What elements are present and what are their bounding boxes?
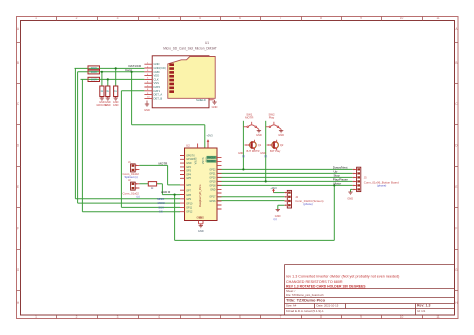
svg-text:AUD R: AUD R — [161, 190, 171, 194]
pushbutton SW1 MOTR — [244, 112, 259, 129]
svg-text:B: B — [17, 61, 19, 65]
connector J5 button board — [353, 167, 399, 191]
svg-text:Spkrout (x): Spkrout (x) — [125, 175, 138, 179]
svg-text:4: 4 — [158, 16, 160, 20]
svg-text:3: 3 — [117, 315, 119, 319]
svg-text:GND: GND — [186, 162, 192, 165]
svg-text:5: 5 — [199, 315, 201, 319]
svg-text:GP12: GP12 — [186, 211, 193, 214]
svg-text:1: 1 — [35, 16, 37, 20]
svg-text:GP19: GP19 — [209, 180, 216, 183]
svg-text:6: 6 — [239, 315, 241, 319]
resistor R6 vertical pulldown 3 — [114, 86, 118, 97]
svg-text:10: 10 — [400, 16, 404, 20]
wire net DAT1/CD horizontal — [75, 67, 145, 69]
connector J1 speaker — [123, 160, 140, 179]
svg-text:CHANGED RESISTORS TO 680R: CHANGED RESISTORS TO 680R — [286, 280, 343, 284]
svg-text:(phone): (phone) — [303, 202, 312, 206]
svg-text:BJT Play: BJT Play — [270, 149, 281, 153]
svg-text:(phone): (phone) — [377, 184, 386, 188]
svg-text:SWDIO: SWDIO — [207, 161, 215, 163]
wire R3 pullup top — [107, 79, 109, 86]
ground below pico — [198, 226, 204, 233]
svg-text:Q1: Q1 — [258, 143, 262, 147]
wire screen gnd — [278, 205, 285, 209]
svg-text:GP18: GP18 — [209, 184, 216, 187]
wire button Stop — [217, 176, 352, 178]
svg-text:GP2: GP2 — [186, 166, 191, 169]
svg-text:GND: GND — [198, 229, 204, 233]
svg-text:GND(/CD): GND(/CD) — [154, 66, 166, 70]
svg-text:9: 9 — [360, 315, 362, 319]
wire button Up — [217, 172, 352, 174]
svg-text:GP21: GP21 — [209, 172, 216, 175]
svg-text:Size: A4: Size: A4 — [286, 304, 297, 308]
svg-text:CS: CS — [159, 210, 163, 214]
svg-text:DET_B: DET_B — [154, 96, 163, 100]
svg-text:CMD: CMD — [154, 70, 160, 74]
svg-text:Sheet: /: Sheet: / — [286, 289, 296, 293]
svg-text:GP16: GP16 — [209, 200, 216, 203]
ground below resistor R6 — [113, 97, 119, 107]
wire vertical V2 to bus — [78, 72, 180, 203]
svg-text:3: 3 — [117, 16, 119, 20]
svg-text:6: 6 — [239, 16, 241, 20]
ground below SD left — [144, 101, 150, 112]
svg-text:+3V3: +3V3 — [270, 186, 277, 190]
svg-text:GND: GND — [210, 188, 216, 191]
transistor Q2 — [260, 140, 284, 158]
svg-text:E: E — [17, 185, 19, 189]
svg-text:DET_A: DET_A — [154, 93, 163, 97]
svg-text:Date: 2021-10-15: Date: 2021-10-15 — [317, 304, 339, 308]
svg-text:680R: 680R — [91, 77, 97, 81]
svg-text:GND: GND — [256, 133, 262, 137]
svg-text:Title: TZXDuino Pico: Title: TZXDuino Pico — [286, 297, 326, 302]
svg-text:4: 4 — [158, 315, 160, 319]
resistor R1 horizontal (DAT1/CD) — [88, 66, 100, 70]
wire buttonconn gnd — [351, 189, 353, 192]
svg-text:10: 10 — [400, 315, 404, 319]
svg-text:SWCLK: SWCLK — [207, 157, 216, 159]
svg-text:680R: 680R — [91, 70, 97, 74]
svg-text:VDD: VDD — [154, 74, 160, 78]
svg-text:GP4: GP4 — [186, 173, 191, 176]
resistor R7 earphone series — [148, 182, 156, 190]
wire screen vcc — [274, 192, 285, 194]
svg-text:VSYS: VSYS — [202, 157, 205, 164]
wire Q2 collector drop — [265, 121, 267, 182]
svg-text:+3V3: +3V3 — [206, 134, 213, 138]
svg-text:7: 7 — [280, 315, 282, 319]
wire net Card to pico top pin — [132, 72, 205, 148]
svg-text:RaspberryPi_Pico: RaspberryPi_Pico — [198, 184, 202, 207]
TITLEBLOCK — [285, 265, 455, 316]
svg-text:VSS: VSS — [154, 81, 160, 85]
junction dots — [101, 67, 336, 195]
wire net Card horizontal — [78, 71, 145, 73]
svg-text:7: 7 — [280, 16, 282, 20]
svg-text:GP5: GP5 — [186, 177, 191, 180]
svg-text:GND: GND — [347, 197, 353, 201]
svg-text:Q2: Q2 — [280, 143, 284, 147]
svg-text:(x): (x) — [242, 154, 245, 158]
resistor R5 vertical pulldown 2 — [106, 86, 110, 97]
svg-text:8: 8 — [320, 16, 322, 20]
wire motor loop — [175, 185, 335, 240]
wire vertical V3 to bus — [82, 79, 180, 211]
svg-text:KiCad E.D.A. kicad (5.1.9)-1: KiCad E.D.A. kicad (5.1.9)-1 — [286, 309, 324, 313]
svg-text:(x): (x) — [274, 217, 277, 221]
svg-text:DAT1: DAT1 — [154, 89, 161, 93]
wire earphone resistor to pico — [139, 184, 180, 195]
ground at SD SHIELD pin — [212, 100, 218, 109]
svg-text:11: 11 — [436, 16, 440, 20]
wire R4 pullup top — [115, 68, 117, 86]
svg-text:2: 2 — [76, 315, 78, 319]
svg-text:B: B — [455, 61, 457, 65]
svg-text:GP9: GP9 — [186, 198, 191, 201]
wire R2 pullup top — [101, 72, 103, 86]
ground at J4 — [275, 210, 281, 219]
svg-text:VBUS: VBUS — [195, 157, 198, 164]
resistor R4 vertical pulldown 1 — [100, 86, 104, 97]
wire label Down/Next — [333, 166, 349, 186]
svg-text:GP22: GP22 — [209, 168, 216, 171]
wire vertical V1 to bus — [75, 68, 180, 198]
svg-text:MOTR: MOTR — [159, 162, 169, 166]
svg-text:Card: Card — [125, 68, 132, 72]
svg-text:(x): (x) — [264, 154, 267, 158]
wire screen SCL — [217, 200, 284, 202]
svg-text:Motor: Motor — [334, 182, 342, 186]
ground at J5 — [347, 192, 353, 201]
svg-text:GND: GND — [199, 217, 205, 220]
resistor R2 horizontal (Card) — [88, 70, 100, 74]
wire button Motor — [217, 184, 352, 186]
svg-text:U2: U2 — [186, 144, 190, 148]
ground at SW2 — [278, 129, 284, 137]
svg-text:GP10: GP10 — [186, 202, 193, 205]
svg-text:GP0/TX: GP0/TX — [186, 154, 195, 157]
svg-text:BJT MOTR: BJT MOTR — [247, 149, 260, 153]
svg-text:GND: GND — [154, 62, 160, 66]
svg-text:E: E — [455, 185, 457, 189]
svg-text:F: F — [17, 226, 19, 230]
wire screen SDA — [217, 196, 284, 198]
connector J4 screen — [285, 190, 324, 208]
svg-text:GP11: GP11 — [186, 207, 193, 210]
wire speaker connector to pico — [139, 165, 180, 185]
svg-text:F: F — [455, 226, 457, 230]
svg-text:11: 11 — [436, 315, 440, 319]
ground at SW1 — [256, 129, 262, 137]
pushbutton SW2 Play — [266, 112, 281, 129]
wire button Down/Next — [217, 168, 352, 170]
svg-text:1: 1 — [35, 315, 37, 319]
svg-text:File: TZXDuino_pico_board.sch: File: TZXDuino_pico_board.sch — [286, 293, 324, 297]
power +3v3 on pico top — [206, 134, 213, 148]
svg-text:Play: Play — [269, 116, 275, 120]
svg-text:GND: GND — [105, 104, 111, 107]
ground below resistor R5 — [105, 97, 111, 107]
power +3v3 at J4 — [270, 186, 277, 193]
wire net CLK horizontal — [81, 78, 145, 80]
svg-text:Micro_SD_Card_Slot_Micron_DM3A: Micro_SD_Card_Slot_Micron_DM3AT — [163, 47, 217, 51]
svg-text:GND: GND — [212, 105, 218, 109]
svg-text:Rev: 1.3: Rev: 1.3 — [417, 304, 430, 308]
svg-text:GP3: GP3 — [186, 170, 191, 173]
svg-text:GND: GND — [278, 133, 284, 137]
MCU U2 Raspberry Pi Pico — [180, 144, 222, 226]
resistor R3 horizontal (CLK) — [88, 77, 100, 81]
svg-text:rev 1.3 Converted inverter div: rev 1.3 Converted inverter divider (Not … — [286, 275, 399, 279]
svg-text:(x): (x) — [137, 194, 140, 198]
svg-text:GP17: GP17 — [209, 196, 216, 199]
connector J2 earphone — [123, 178, 140, 198]
transistor Q1 — [238, 140, 262, 158]
svg-text:GND: GND — [113, 104, 119, 107]
ground below resistor R4 — [96, 97, 107, 107]
wire button Play/Pause — [217, 180, 352, 182]
svg-text:MOTR: MOTR — [245, 116, 253, 120]
svg-text:2: 2 — [76, 16, 78, 20]
svg-text:GP8: GP8 — [186, 194, 191, 197]
svg-text:GP7: GP7 — [186, 190, 191, 193]
svg-text:9: 9 — [360, 16, 362, 20]
svg-text:5: 5 — [199, 16, 201, 20]
svg-text:REV 1.3 ROTATED CARD HOLDER 18: REV 1.3 ROTATED CARD HOLDER 180 DEGREES — [286, 284, 366, 288]
svg-text:DAT0: DAT0 — [154, 85, 161, 89]
svg-text:Id: 1/1: Id: 1/1 — [417, 309, 426, 313]
svg-text:U1: U1 — [205, 41, 209, 45]
svg-text:GP6: GP6 — [186, 184, 191, 187]
svg-text:SHIELD: SHIELD — [196, 98, 206, 102]
svg-text:GND: GND — [144, 108, 150, 112]
svg-text:CLK: CLK — [154, 77, 159, 81]
SD card module U1 — [144, 41, 216, 108]
wire net DAT0 from SD down to pico — [121, 91, 180, 208]
svg-text:8: 8 — [320, 315, 322, 319]
wire Q1 collector drop — [242, 121, 244, 170]
svg-text:GP20: GP20 — [209, 176, 216, 179]
